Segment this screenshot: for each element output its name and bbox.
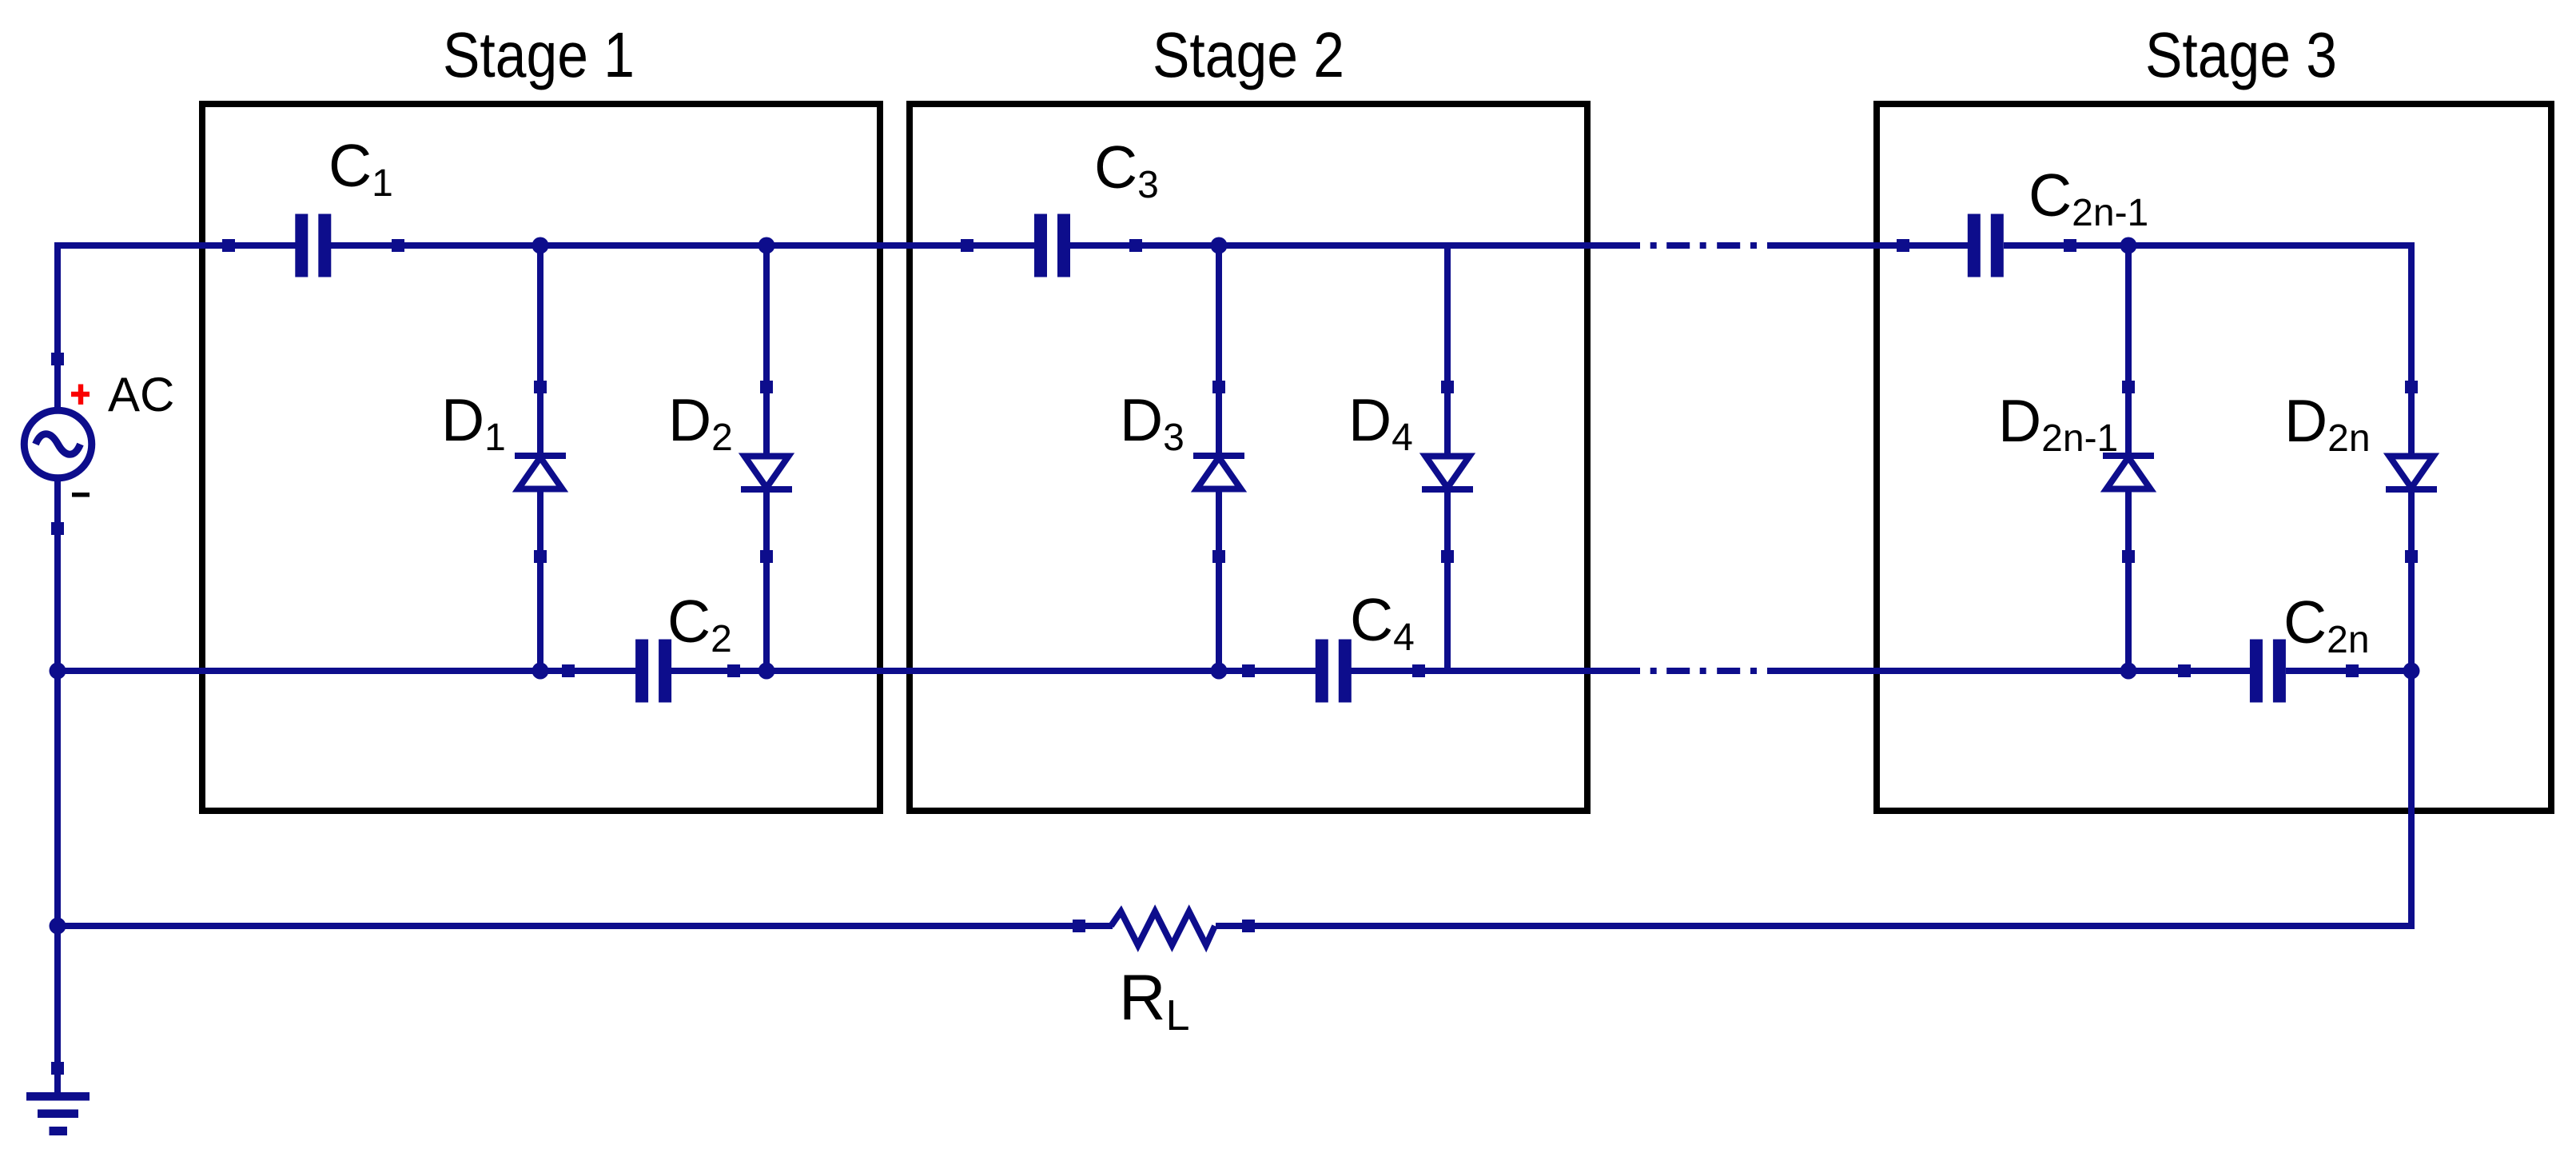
svg-text:D2n-1: D2n-1 [1998, 387, 2118, 460]
pin C3 right [1129, 239, 1142, 252]
pin D4 cathode [1441, 550, 1454, 563]
pin C2 left [562, 664, 575, 677]
stage 2 box [910, 104, 1587, 811]
ground [26, 1092, 90, 1135]
capacitor C2 [635, 640, 671, 703]
junction bottom left [50, 663, 66, 680]
pin D3 anode [1212, 550, 1225, 563]
wire D2n upper [2408, 242, 2415, 453]
diode D4 [1422, 457, 1473, 493]
wire top bus: AC corner to C1 [54, 242, 296, 249]
pin D2n cathode [2405, 550, 2418, 563]
junction bottom node A [532, 663, 549, 680]
wire D3 upper [1216, 245, 1222, 453]
svg-text:AC: AC [108, 368, 174, 421]
svg-text:C2: C2 [667, 588, 732, 660]
wire bottom bus dash-dot [1650, 668, 1757, 674]
capacitor C2n-1 [1968, 214, 2004, 277]
capacitor C2n [2250, 640, 2286, 703]
wire bottom bus: break to C2n [1767, 668, 2251, 674]
diode D2n [2386, 457, 2437, 493]
pin C2n-1 right [2064, 239, 2076, 252]
AC source sine [36, 434, 81, 455]
wire bottom bus: left to C2 [54, 668, 636, 674]
pin D4 anode [1441, 381, 1454, 393]
pin RL right [1242, 920, 1255, 932]
pin C2n-1 left [1897, 239, 1909, 252]
junction bottom node D [2120, 663, 2137, 680]
svg-text:C2n: C2n [2283, 588, 2370, 661]
pin C1 right [392, 239, 404, 252]
wire load: RL to right vertical [1216, 923, 2415, 929]
pin D2n anode [2405, 381, 2418, 393]
diode D1 [515, 453, 566, 489]
svg-text:C2n-1: C2n-1 [2029, 162, 2148, 234]
plus sign [71, 385, 90, 405]
junction bottom right [2403, 663, 2420, 680]
wire top bus: break to C2n-1 [1767, 242, 1969, 249]
pin C2n left [2178, 664, 2191, 677]
wire top bus: C2n-1 to D2n corner [2004, 242, 2415, 249]
wire D2n-1 lower [2125, 492, 2132, 674]
svg-text:C1: C1 [328, 132, 393, 205]
svg-text:Stage 3: Stage 3 [2145, 19, 2337, 90]
diode D2n-1 [2103, 453, 2154, 489]
pin D2n-1 anode [2122, 550, 2135, 563]
pin C2 right [727, 664, 740, 677]
svg-text:D2: D2 [668, 386, 733, 459]
wire AC branch lower to ground [54, 481, 61, 1092]
pin AC minus [51, 522, 64, 535]
wire top bus: C1 to C3 [331, 242, 1035, 249]
pin D3 cathode [1212, 381, 1225, 393]
capacitor C1 [295, 214, 331, 277]
svg-text:D2n: D2n [2284, 387, 2371, 460]
wire D2 upper [763, 242, 770, 453]
wire D4 upper [1444, 242, 1451, 453]
junction top node A [532, 237, 549, 254]
wire top bus: C3 to break [1070, 242, 1640, 249]
wire top bus dash-dot [1650, 242, 1757, 249]
resistor RL [1111, 912, 1215, 945]
svg-text:C3: C3 [1094, 134, 1159, 206]
pin D2 cathode [760, 550, 773, 563]
stage 3 box [1877, 104, 2551, 811]
svg-text:D3: D3 [1120, 386, 1184, 459]
junction top node D [2120, 237, 2137, 254]
junction top node C [1211, 237, 1228, 254]
pin D2n-1 cathode [2122, 381, 2135, 393]
junction load left [50, 918, 66, 935]
svg-text:D4: D4 [1348, 386, 1413, 459]
svg-text:D1: D1 [441, 386, 506, 459]
wire bottom bus: C4 to break [1351, 668, 1640, 674]
wire D3 lower [1216, 492, 1222, 674]
wire bottom bus: C2 to C4 [671, 668, 1316, 674]
pin ground [51, 1062, 64, 1075]
stage 1 box [202, 104, 880, 811]
junction top node B [758, 237, 775, 254]
pin C3 left [961, 239, 973, 252]
diode D3 [1193, 453, 1244, 489]
pin C2n right [2346, 664, 2359, 677]
pin RL left [1073, 920, 1085, 932]
junction bottom node B [758, 663, 775, 680]
capacitor C3 [1034, 214, 1070, 277]
minus sign [72, 493, 90, 497]
wire D2n lower to load corner [2408, 493, 2415, 929]
junction bottom node C [1211, 663, 1228, 680]
svg-text:Stage 1: Stage 1 [443, 19, 635, 90]
svg-text:RL: RL [1119, 962, 1190, 1039]
pin AC plus [51, 353, 64, 365]
pin D1 anode [534, 550, 547, 563]
wire D2 lower [763, 493, 770, 674]
diode D2 [741, 457, 792, 493]
wire AC branch upper [54, 242, 61, 408]
pin C4 left [1242, 664, 1255, 677]
svg-text:C4: C4 [1350, 586, 1415, 659]
pin C1 left [222, 239, 235, 252]
svg-text:Stage 2: Stage 2 [1153, 19, 1344, 90]
wire D2n-1 upper [2125, 245, 2132, 453]
pin C4 right [1412, 664, 1425, 677]
wire bottom bus: C2n to right corner [2286, 668, 2415, 674]
wire load: left vertical to RL [54, 923, 1113, 929]
capacitor C4 [1316, 640, 1352, 703]
wire D4 lower [1444, 493, 1451, 674]
AC source circle [24, 410, 92, 478]
pin D2 anode [760, 381, 773, 393]
wire D1 lower [537, 492, 543, 674]
wire D1 anode-side upper [537, 245, 543, 453]
pin D1 cathode [534, 381, 547, 393]
